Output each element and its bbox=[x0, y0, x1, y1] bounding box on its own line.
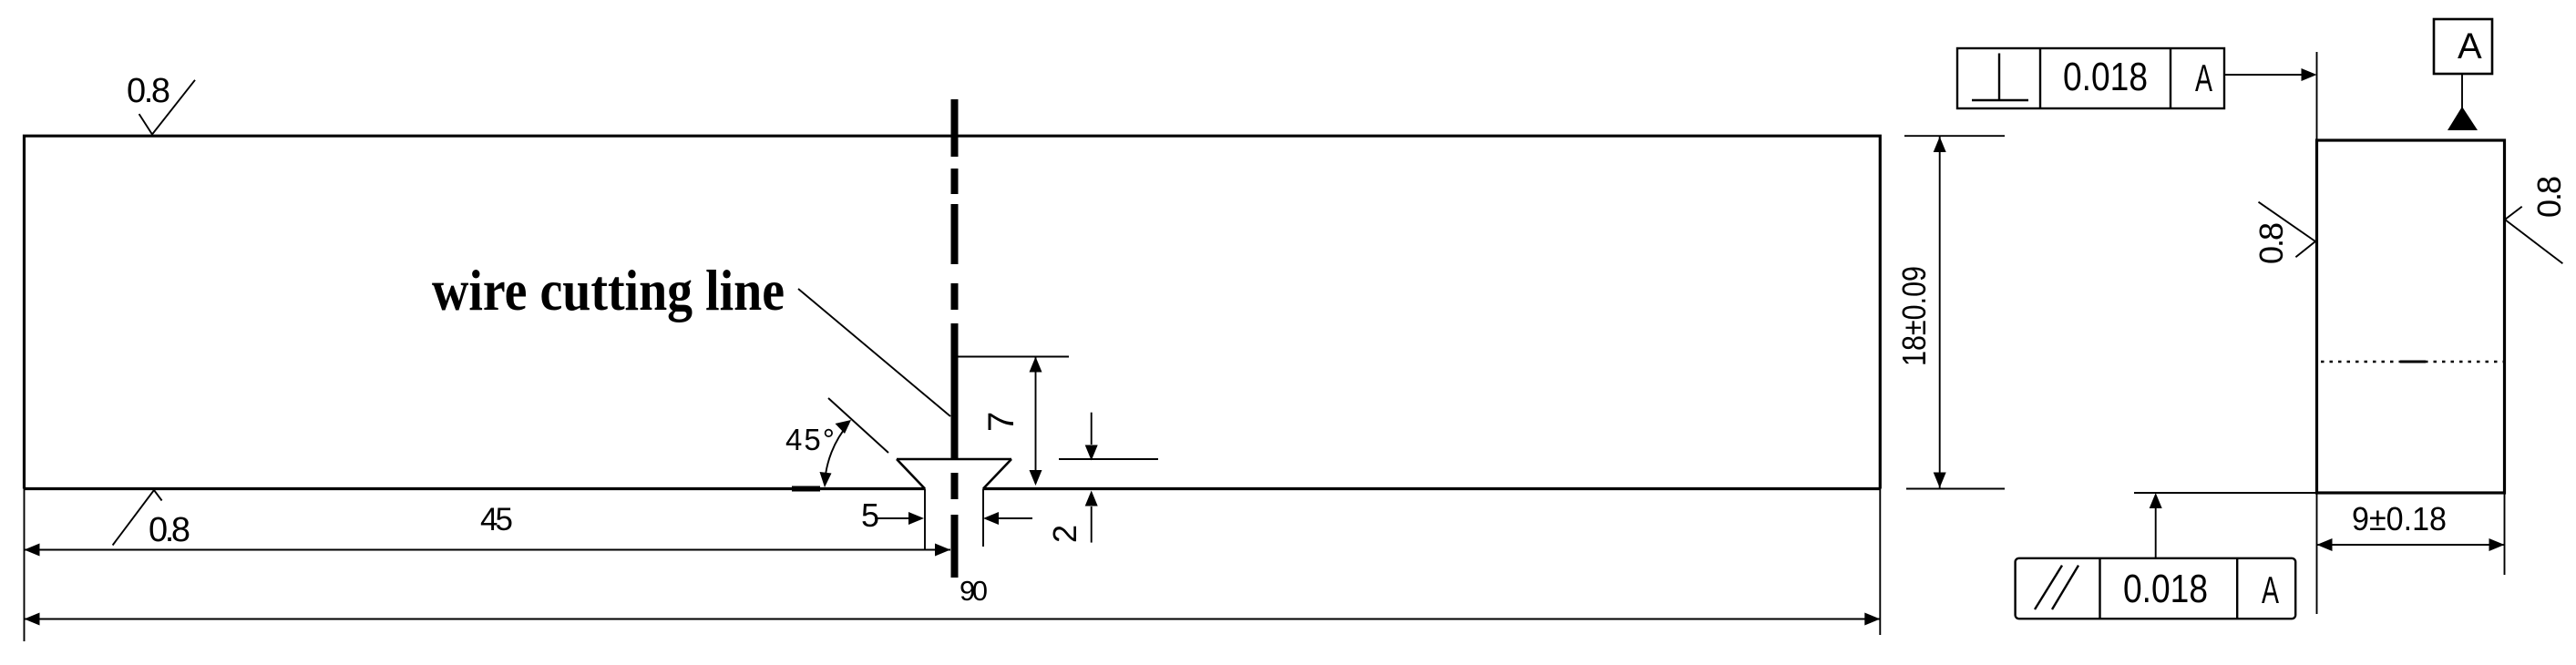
svg-text:9±0.18: 9±0.18 bbox=[2352, 500, 2447, 537]
svg-text:A: A bbox=[2262, 568, 2279, 611]
svg-text:7: 7 bbox=[981, 412, 1021, 432]
svg-text:45: 45 bbox=[480, 502, 513, 537]
svg-text:45°: 45° bbox=[785, 423, 835, 456]
svg-text:0.8: 0.8 bbox=[149, 511, 190, 549]
svg-text:A: A bbox=[2195, 56, 2212, 99]
svg-text:90: 90 bbox=[960, 575, 988, 607]
svg-text:0.8: 0.8 bbox=[2253, 222, 2290, 264]
svg-text:2: 2 bbox=[1046, 525, 1083, 543]
svg-text:wire cutting line: wire cutting line bbox=[432, 258, 785, 322]
svg-text:A: A bbox=[2458, 26, 2482, 66]
svg-text:0.8: 0.8 bbox=[2530, 176, 2568, 218]
svg-text:5: 5 bbox=[861, 496, 879, 534]
svg-text:0.8: 0.8 bbox=[127, 72, 170, 110]
svg-text:0.018: 0.018 bbox=[2123, 567, 2208, 611]
svg-text:18±0.09: 18±0.09 bbox=[1895, 266, 1933, 366]
svg-text:0.018: 0.018 bbox=[2063, 55, 2148, 99]
